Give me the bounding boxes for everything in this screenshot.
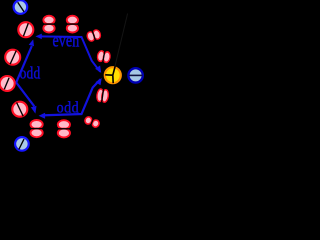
dimer LR (lower-right edge) xyxy=(84,115,101,129)
dimer G (top edge, left) xyxy=(43,16,56,33)
svg-text:odd: odd xyxy=(57,99,80,116)
arrow: even (double-headed, B to soliton) xyxy=(35,34,101,73)
soliton Y mark branch S xyxy=(112,75,114,83)
arrow: odd bottom (double-headed, bottom dimer to soliton) xyxy=(39,78,102,119)
monomer C (pink) xyxy=(5,50,20,65)
dimer L (bottom edge, left) xyxy=(30,120,44,137)
dimer UR (upper-right edge) xyxy=(86,29,101,42)
wire: black pointer line to soliton xyxy=(113,14,128,76)
soliton Y mark branch W xyxy=(105,74,113,76)
diagram: soliton hopping on a dimerized ring (even/odd) xyxy=(0,0,159,153)
dimer J (right edge, lower) xyxy=(96,88,109,103)
monomer F (blue, bottom-left) xyxy=(15,137,29,151)
arrow: odd left (double-headed, B to bottom dimer) xyxy=(16,39,36,113)
soliton Y mark branch NE xyxy=(113,66,115,75)
monomer D (pink) xyxy=(0,76,15,91)
dimer H (top edge, right) xyxy=(66,16,79,33)
svg-text:odd: odd xyxy=(20,66,41,83)
node: soliton (yellow circle) xyxy=(105,67,121,83)
monomer B (pink) xyxy=(18,22,33,37)
svg-text:even: even xyxy=(53,29,80,51)
node M (blue circle with horizontal bar, right) xyxy=(128,68,142,82)
monomer A (blue, top-left) xyxy=(14,0,28,14)
dimer I (right edge, upper) xyxy=(97,50,111,63)
monomer E (pink) xyxy=(12,102,27,117)
dimer K (bottom edge, right) xyxy=(57,120,71,137)
